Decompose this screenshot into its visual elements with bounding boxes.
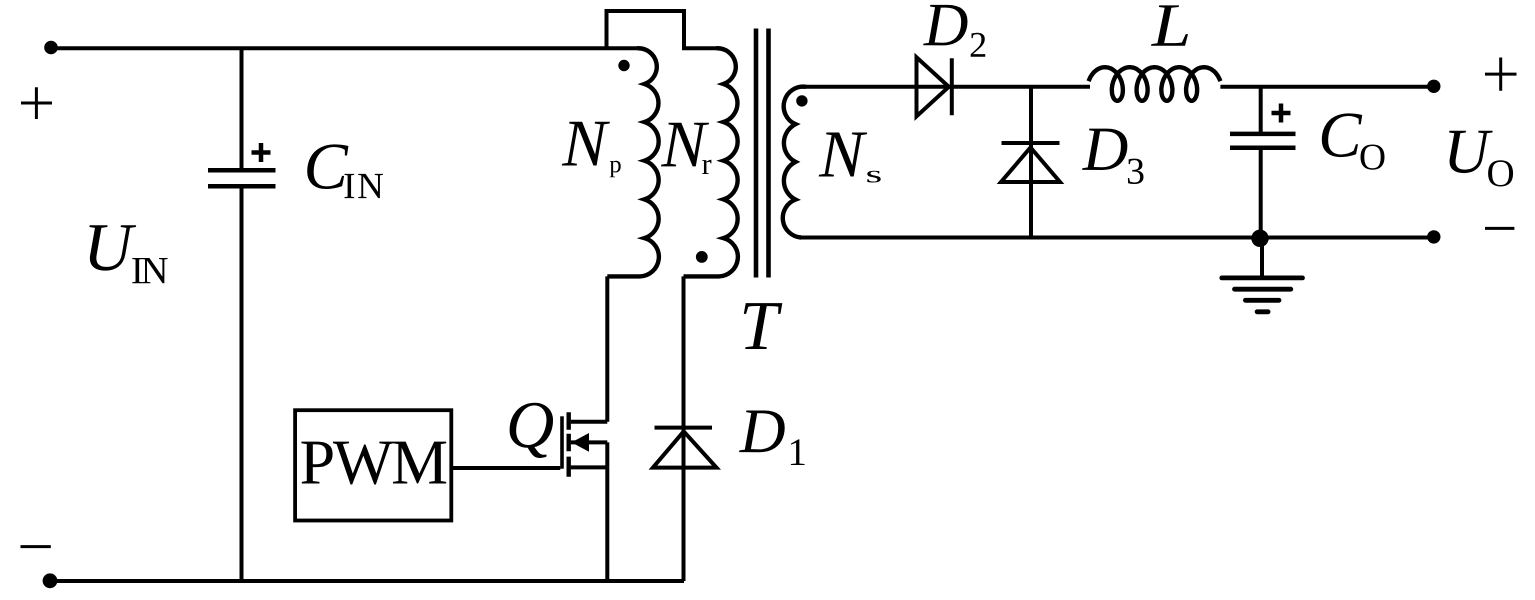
label Nr xyxy=(661,123,711,174)
capacitor Co xyxy=(1230,134,1296,148)
diode D2 xyxy=(917,57,952,116)
label D2 xyxy=(923,5,985,57)
wire bottom input rail xyxy=(50,579,684,583)
wire Cin top branch xyxy=(240,48,244,168)
wire ground stem xyxy=(1260,238,1264,277)
label T xyxy=(744,303,783,349)
wire Co bottom branch xyxy=(1259,150,1263,238)
label UIN xyxy=(89,225,167,283)
wire MOSFET source to bottom rail xyxy=(605,467,609,581)
label Q xyxy=(510,403,553,458)
wire top input rail xyxy=(51,46,637,50)
Cin polarity plus xyxy=(252,143,271,162)
node Ns phase dot xyxy=(796,95,807,106)
transformer primary winding Np xyxy=(607,48,659,276)
transformer reset winding Nr xyxy=(684,48,738,276)
diode D3 xyxy=(1001,143,1060,182)
output plus sign xyxy=(1485,58,1517,91)
output minus sign xyxy=(1485,227,1514,230)
label Np xyxy=(562,122,621,178)
wire secondary top rail xyxy=(800,85,1090,89)
node Np phase dot xyxy=(618,60,629,71)
wire Cin bottom branch xyxy=(240,188,244,581)
label UO xyxy=(1449,131,1513,187)
inductor L xyxy=(1089,67,1221,101)
wire secondary bottom rail xyxy=(799,236,1434,240)
ground xyxy=(1222,278,1303,312)
PWM block xyxy=(295,410,451,520)
input plus sign xyxy=(21,87,52,119)
label Ns xyxy=(819,133,881,183)
label PWM xyxy=(301,442,446,485)
label L xyxy=(1151,5,1188,45)
node Nr phase dot xyxy=(696,251,708,263)
label D3 xyxy=(1082,129,1143,184)
node output + terminal xyxy=(1427,80,1440,93)
input minus sign xyxy=(21,545,51,548)
node input - terminal xyxy=(43,573,58,588)
wire D3 branch xyxy=(1029,87,1033,238)
label CO xyxy=(1322,113,1385,169)
transformer secondary winding Ns xyxy=(783,87,806,238)
wire Nr bottom through D1 to bottom rail xyxy=(682,276,686,581)
label D1 xyxy=(739,411,804,466)
wire Np bottom to MOSFET drain xyxy=(605,276,609,421)
diode D1 xyxy=(653,428,717,468)
label CIN xyxy=(307,144,383,198)
wire Co top branch xyxy=(1259,87,1263,132)
transformer core xyxy=(756,29,769,278)
Co polarity plus xyxy=(1272,104,1291,123)
wire PWM gate xyxy=(451,466,560,470)
wire transformer top jumper xyxy=(607,11,717,48)
node input + terminal xyxy=(44,41,58,55)
node output - terminal xyxy=(1427,230,1440,243)
transistor Q (MOSFET) xyxy=(562,412,607,477)
capacitor Cin xyxy=(208,170,276,186)
node junction Co/ground xyxy=(1251,230,1268,247)
